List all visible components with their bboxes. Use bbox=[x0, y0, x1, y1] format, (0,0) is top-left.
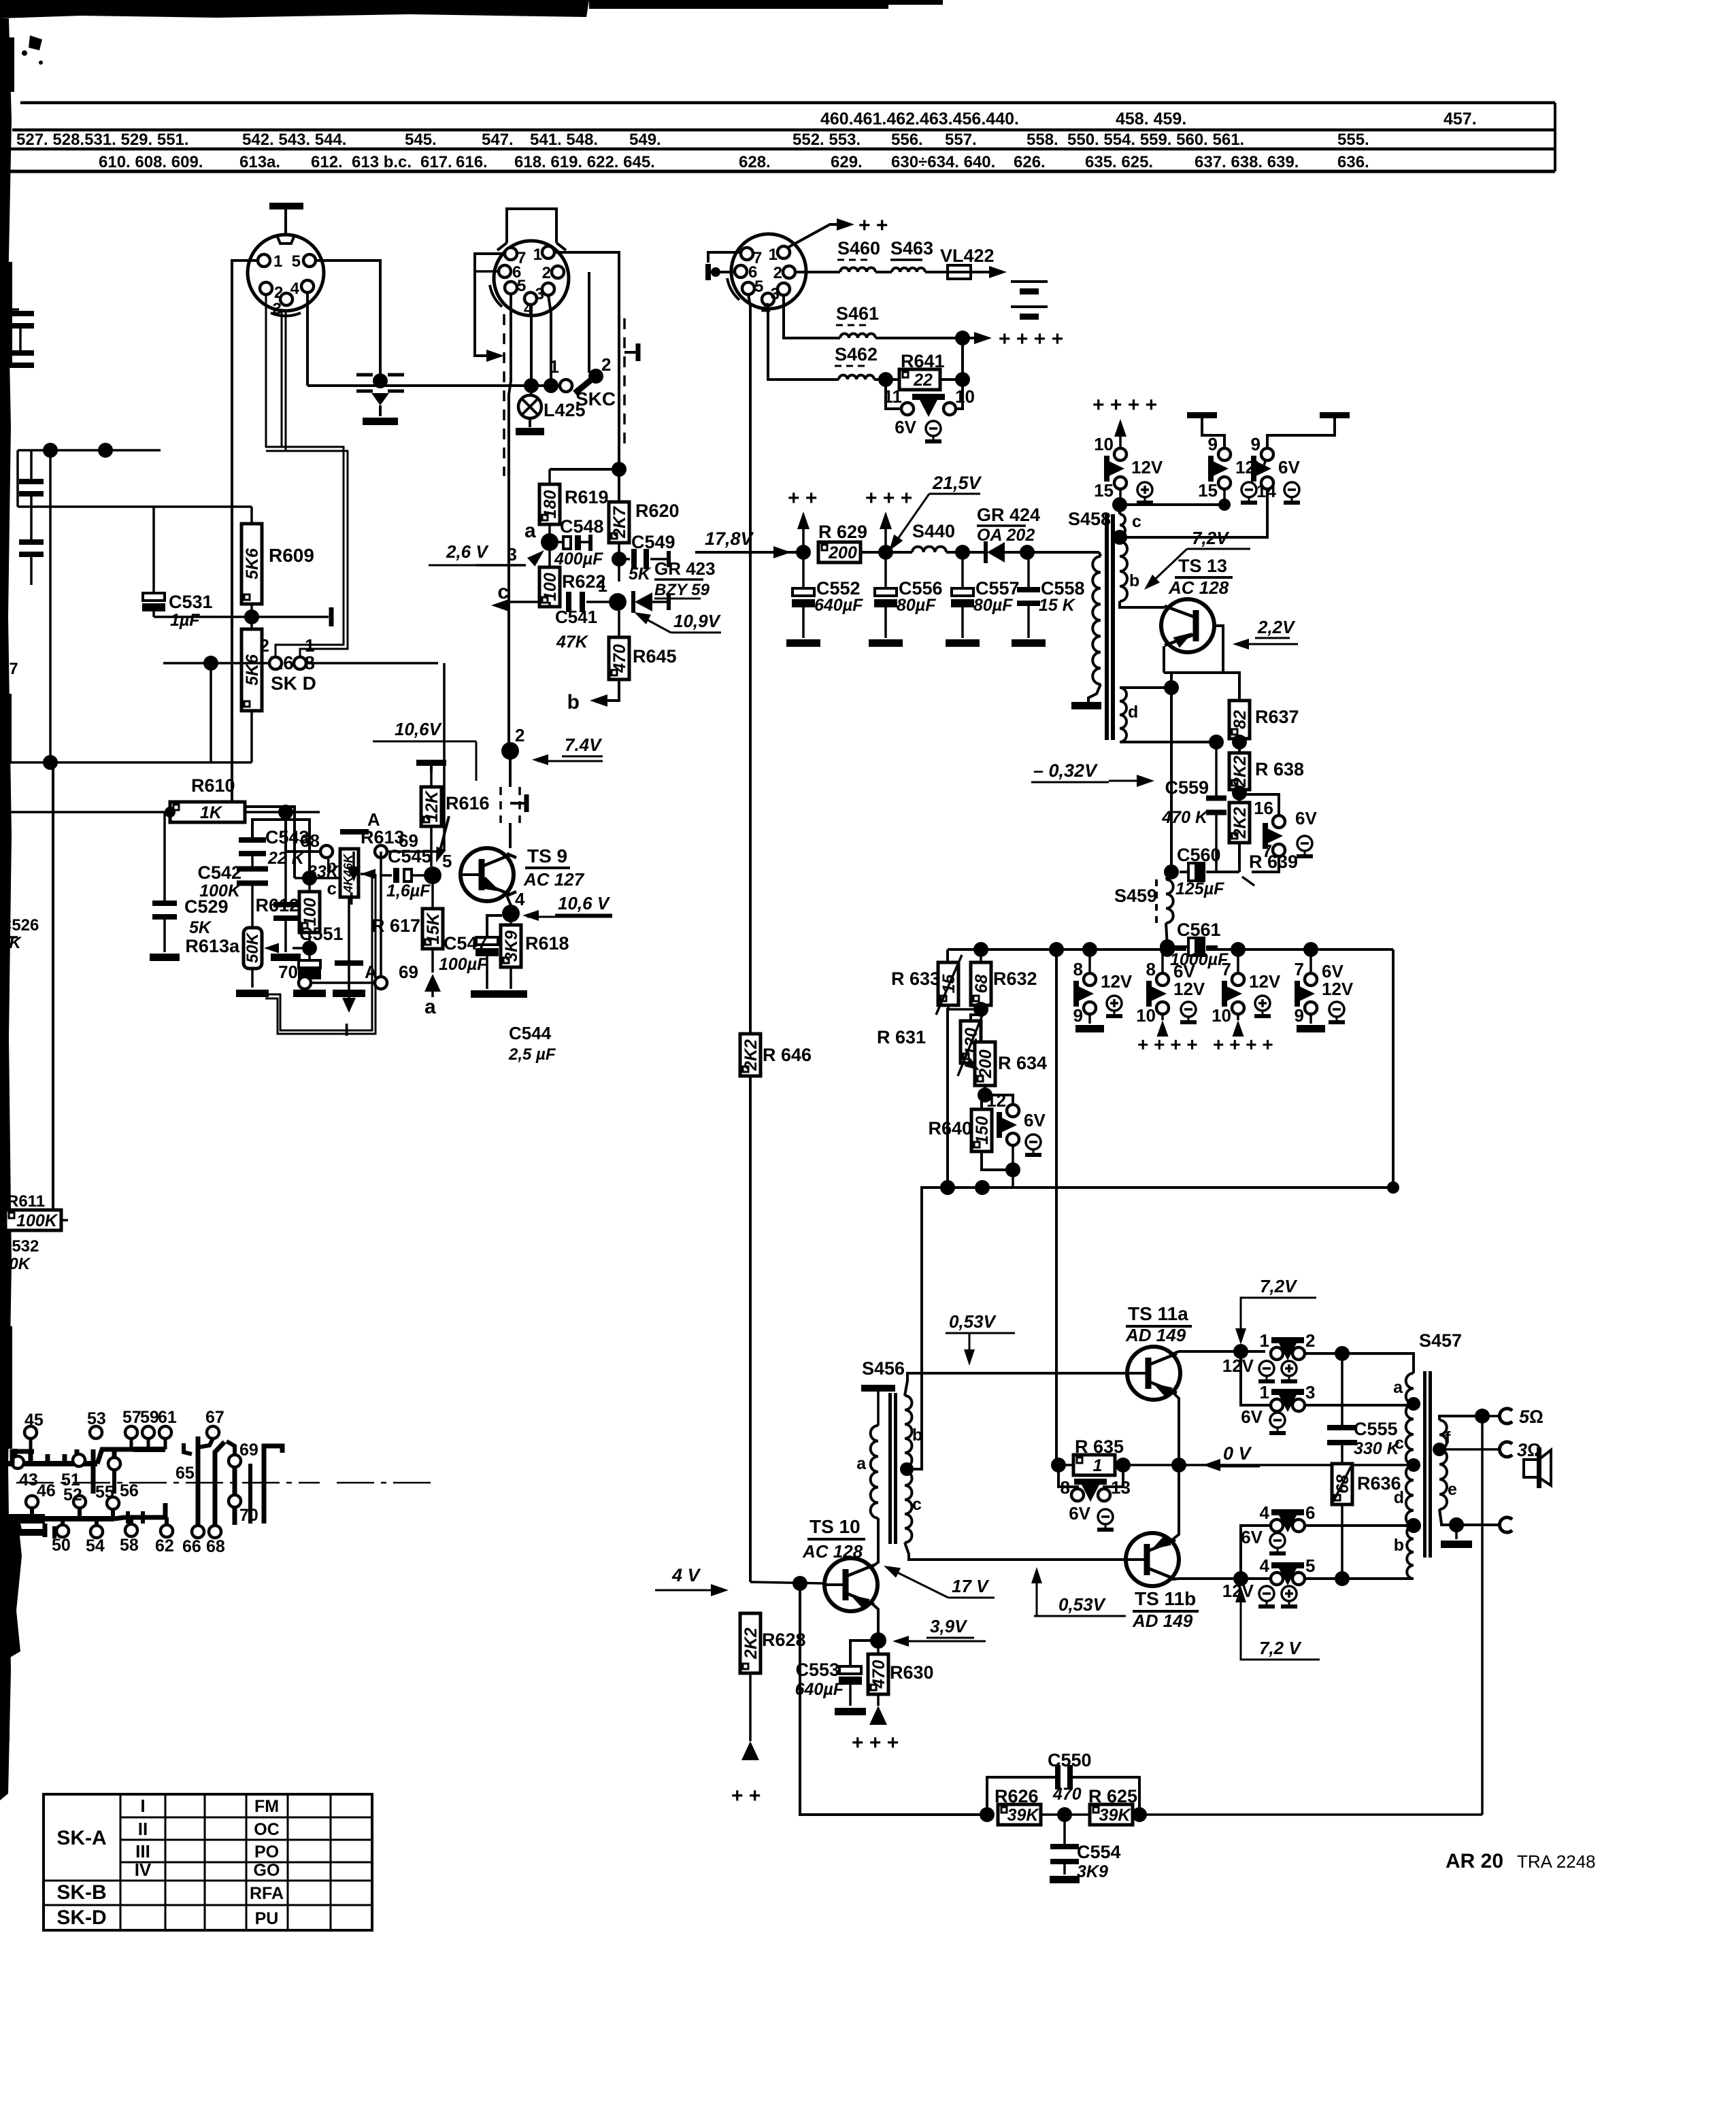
svg-text:13: 13 bbox=[1111, 1477, 1131, 1498]
svg-text:R616: R616 bbox=[446, 793, 490, 813]
svg-text:R632: R632 bbox=[993, 969, 1037, 989]
svg-text:S456: S456 bbox=[862, 1358, 905, 1379]
wire SKA pin2/3 to SKD bbox=[266, 295, 282, 447]
svg-text:A: A bbox=[367, 809, 380, 830]
svg-text:R609: R609 bbox=[269, 545, 314, 566]
wire SKD left bbox=[163, 662, 269, 664]
svg-text:SK D: SK D bbox=[271, 673, 316, 694]
plug contact left of SKE bbox=[705, 264, 711, 280]
button contacts 16-7 (6V) bbox=[1239, 794, 1279, 816]
svg-text:+ + +: + + + bbox=[852, 1732, 899, 1754]
svg-text:C526: C526 bbox=[0, 916, 39, 935]
svg-text:PO: PO bbox=[254, 1843, 279, 1862]
svg-text:15K: 15K bbox=[424, 912, 443, 945]
svg-text:2K2: 2K2 bbox=[741, 1039, 761, 1071]
svg-text:52: 52 bbox=[63, 1485, 82, 1504]
S456 winding a bbox=[871, 1426, 878, 1518]
S458 winding b bbox=[1120, 541, 1127, 601]
SKE pin 4 bbox=[762, 293, 774, 305]
wire SKE pin5 down (long rail) bbox=[748, 295, 750, 1582]
svg-text:635. 625.: 635. 625. bbox=[1085, 153, 1153, 171]
ground C557 bbox=[946, 639, 980, 647]
switch bank branch 68 bbox=[215, 1442, 224, 1526]
resistor R609 bbox=[250, 507, 253, 524]
wire winding b to TS13 base bbox=[1120, 601, 1165, 607]
wire to contacts bbox=[286, 812, 320, 852]
resistor R628 bbox=[740, 1613, 761, 1673]
capacitor C560 row bbox=[1164, 864, 1179, 879]
coil S462 bbox=[839, 375, 874, 380]
svg-text:2K2: 2K2 bbox=[741, 1628, 761, 1660]
capacitor C561 row bbox=[1160, 939, 1175, 954]
svg-text:AR 20: AR 20 bbox=[1446, 1850, 1503, 1872]
node 5 junction bbox=[424, 866, 441, 884]
resistor R626 bbox=[998, 1804, 1041, 1825]
svg-text:+ + + +: + + + + bbox=[999, 328, 1063, 350]
SK table grid bbox=[44, 1794, 372, 1930]
svg-text:9: 9 bbox=[1251, 434, 1261, 454]
wire S461 to ++++ arrow bbox=[875, 337, 978, 339]
common terminal bbox=[1499, 1517, 1512, 1532]
button contacts 4-6 (6V) bbox=[1271, 1519, 1283, 1532]
svg-text:R 617: R 617 bbox=[371, 915, 420, 936]
svg-text:5: 5 bbox=[442, 851, 452, 871]
svg-text:39K: 39K bbox=[1099, 1806, 1132, 1825]
svg-text:C541: C541 bbox=[555, 607, 597, 627]
TS10 base wire bbox=[750, 1582, 824, 1583]
svg-text:3: 3 bbox=[273, 300, 282, 318]
svg-text:3: 3 bbox=[507, 544, 517, 565]
5 ohm terminal bbox=[1499, 1409, 1512, 1424]
svg-text:640µF: 640µF bbox=[795, 1680, 844, 1699]
resistor R639 bbox=[1229, 803, 1250, 843]
switch bank bottom comb bbox=[20, 1516, 114, 1521]
svg-text:+ + +: + + + bbox=[865, 487, 912, 509]
TS11a collector wire bbox=[1173, 1351, 1265, 1353]
resistor R625 bbox=[1090, 1804, 1133, 1825]
contact 55 bbox=[108, 1458, 120, 1470]
junction R609-R608 bbox=[244, 609, 259, 624]
svg-text:TS 13: TS 13 bbox=[1178, 556, 1227, 576]
svg-text:70: 70 bbox=[278, 962, 298, 982]
svg-text:558.: 558. bbox=[1026, 131, 1058, 149]
svg-text:6V: 6V bbox=[1024, 1110, 1046, 1130]
SKB pin 1 bbox=[542, 246, 554, 258]
SKA pin 3 bbox=[280, 293, 293, 305]
SKA pin 1 bbox=[258, 254, 270, 267]
svg-text:2: 2 bbox=[601, 354, 611, 375]
svg-text:I: I bbox=[140, 1796, 145, 1816]
17,8V feed wire with arrow bbox=[695, 551, 799, 554]
contact 43 bbox=[12, 1456, 24, 1468]
speaker feedback rail bbox=[1481, 1416, 1484, 1815]
svg-text:2: 2 bbox=[1305, 1330, 1315, 1351]
resistor R645 bbox=[618, 611, 620, 637]
svg-text:d: d bbox=[1128, 703, 1138, 722]
svg-text:6V: 6V bbox=[1241, 1407, 1263, 1427]
wire R612 chain bbox=[308, 878, 311, 892]
svg-text:1: 1 bbox=[1260, 1330, 1269, 1351]
svg-text:10,9V: 10,9V bbox=[673, 611, 722, 631]
0V rail bbox=[1058, 1464, 1179, 1466]
svg-text:68: 68 bbox=[300, 830, 320, 851]
svg-text:60K: 60K bbox=[0, 1255, 31, 1273]
svg-text:7.4V: 7.4V bbox=[565, 735, 603, 755]
left partial caps bbox=[30, 450, 33, 482]
svg-text:2: 2 bbox=[515, 725, 524, 745]
svg-text:R626: R626 bbox=[995, 1786, 1039, 1806]
svg-text:C561: C561 bbox=[1177, 920, 1221, 940]
svg-text:C549: C549 bbox=[631, 532, 675, 552]
svg-text:L425: L425 bbox=[544, 400, 586, 420]
wire button3 to S457 a/c tap bbox=[1305, 1404, 1414, 1407]
node 1 junction bbox=[609, 593, 627, 611]
svg-text:50K: 50K bbox=[244, 932, 262, 963]
contact 68 bank bbox=[209, 1526, 221, 1538]
contact A lower bbox=[311, 981, 375, 984]
contact 53 bbox=[90, 1426, 102, 1438]
svg-text:10,6V: 10,6V bbox=[395, 719, 443, 739]
wire SKA pin1 to bias network bbox=[232, 260, 295, 878]
svg-text:69: 69 bbox=[399, 962, 418, 982]
feedback double wire bbox=[295, 874, 372, 1030]
svg-text:C544: C544 bbox=[509, 1023, 552, 1043]
svg-text:c: c bbox=[1395, 1434, 1404, 1453]
button contacts 1-2 (12V) bbox=[1271, 1347, 1283, 1360]
svg-text:7: 7 bbox=[1222, 959, 1231, 979]
bus right vertical bbox=[1392, 949, 1395, 1188]
wire R620 top junction bbox=[550, 468, 619, 471]
SKC contact 1 bbox=[560, 380, 572, 392]
wire node5 to R616 bbox=[430, 826, 433, 866]
svg-text:640µF: 640µF bbox=[814, 596, 863, 615]
svg-text:SK-A: SK-A bbox=[56, 1827, 106, 1849]
svg-text:5: 5 bbox=[1305, 1555, 1315, 1576]
contact 67 bbox=[207, 1426, 219, 1438]
S457 winding b bbox=[1407, 1526, 1414, 1579]
svg-text:3,9V: 3,9V bbox=[930, 1616, 968, 1636]
coil S463 bbox=[892, 268, 925, 272]
svg-text:d: d bbox=[1394, 1488, 1404, 1507]
button contacts 1-3 (6V) bbox=[1271, 1399, 1283, 1411]
svg-text:68: 68 bbox=[972, 975, 991, 994]
bus left vertical bbox=[946, 949, 949, 962]
R613 ground bbox=[348, 897, 350, 988]
svg-text:5: 5 bbox=[292, 252, 301, 271]
contact 46 bbox=[26, 1496, 38, 1508]
capacitor C529 bbox=[163, 812, 166, 901]
contact 70 bank bbox=[229, 1495, 241, 1507]
svg-text:7,2V: 7,2V bbox=[1192, 528, 1230, 548]
svg-text:1: 1 bbox=[273, 252, 282, 271]
wire SKB pin3 down bbox=[548, 295, 551, 386]
svg-text:C548: C548 bbox=[560, 516, 604, 537]
wire winding f top to 5ohm bbox=[1439, 1416, 1482, 1420]
wire SKA pin4 down bbox=[306, 292, 309, 386]
resistor R610 bbox=[0, 811, 170, 813]
left partial wire top bbox=[18, 449, 161, 452]
svg-text:10: 10 bbox=[1136, 1005, 1156, 1026]
svg-text:TS 11a: TS 11a bbox=[1128, 1303, 1188, 1324]
svg-text:GR 424: GR 424 bbox=[977, 505, 1040, 525]
vertical rail TS13 collector bbox=[1170, 673, 1173, 872]
switch bank branch 66 bbox=[196, 1436, 201, 1525]
node 4 junction bbox=[502, 905, 520, 922]
resistor R637 bbox=[1229, 701, 1250, 739]
wire c/d tap to 0V rail bbox=[1413, 1464, 1414, 1466]
svg-text:C553: C553 bbox=[795, 1660, 839, 1680]
svg-text:10: 10 bbox=[955, 386, 975, 407]
svg-text:R641: R641 bbox=[901, 351, 945, 371]
svg-text:330 K: 330 K bbox=[1354, 1439, 1401, 1458]
SKE pin 7 bbox=[741, 248, 753, 260]
svg-text:629.: 629. bbox=[831, 153, 863, 171]
transistor TS11b bbox=[1126, 1533, 1179, 1586]
svg-text:S457: S457 bbox=[1419, 1330, 1462, 1351]
speaker bbox=[1524, 1460, 1539, 1477]
resistor R634 bbox=[975, 1042, 995, 1086]
ground below chassis cap bbox=[363, 418, 398, 425]
svg-text:12V: 12V bbox=[1249, 971, 1281, 992]
capacitor C543 bbox=[239, 837, 266, 843]
svg-text:7,2V: 7,2V bbox=[1260, 1276, 1298, 1296]
resistor R620 bbox=[609, 502, 629, 543]
chassis T above R616 bbox=[416, 760, 446, 766]
svg-text:R618: R618 bbox=[525, 933, 569, 954]
svg-text:2,6 V: 2,6 V bbox=[446, 541, 489, 562]
svg-text:C532: C532 bbox=[0, 1237, 39, 1256]
ground R618 bbox=[510, 967, 512, 989]
svg-text:6: 6 bbox=[1305, 1502, 1315, 1523]
wire winding e bottom bbox=[1439, 1509, 1501, 1525]
svg-text:557.: 557. bbox=[945, 131, 977, 149]
svg-text:RFA: RFA bbox=[250, 1884, 284, 1903]
R613 wiper arrow bbox=[361, 869, 375, 879]
svg-text:200: 200 bbox=[976, 1049, 995, 1079]
svg-text:+ + + +: + + + + bbox=[1137, 1034, 1198, 1055]
svg-text:1: 1 bbox=[769, 246, 778, 264]
wire S460-S463 bbox=[875, 271, 892, 273]
mech dashed link right with tick bbox=[623, 318, 626, 449]
wire SKC contact2 up to DIN2 pin2 bbox=[588, 272, 590, 373]
TS11b emitter wire bbox=[1172, 1465, 1179, 1540]
wire diode to transformer bbox=[1027, 551, 1099, 554]
svg-text:SK-D: SK-D bbox=[56, 1906, 106, 1929]
svg-text:6V: 6V bbox=[1295, 808, 1317, 828]
svg-text:5K: 5K bbox=[629, 565, 652, 584]
SKA pin 2 bbox=[260, 282, 272, 295]
svg-text:R 631: R 631 bbox=[877, 1027, 926, 1047]
resistor R641 bbox=[899, 369, 940, 390]
svg-text:c: c bbox=[1132, 512, 1141, 531]
S458 winding c bbox=[1120, 514, 1125, 536]
capacitor C557 bbox=[961, 552, 964, 588]
svg-text:618. 619. 622. 645.: 618. 619. 622. 645. bbox=[514, 153, 655, 171]
bottom rail left bbox=[800, 1583, 981, 1815]
S457 winding d bbox=[1406, 1465, 1414, 1526]
svg-text:12V: 12V bbox=[1222, 1356, 1254, 1376]
svg-text:AC 128: AC 128 bbox=[802, 1541, 863, 1562]
svg-text:550. 554. 559. 560. 561.: 550. 554. 559. 560. 561. bbox=[1067, 131, 1244, 149]
connector SKE (7-pin DIN) body bbox=[731, 234, 806, 309]
svg-text:69: 69 bbox=[399, 830, 418, 851]
capacitor C552 bbox=[802, 552, 805, 588]
S458 winding d bbox=[1120, 688, 1126, 742]
svg-text:– 0,32V: – 0,32V bbox=[1033, 760, 1098, 781]
S456 winding b bbox=[905, 1396, 912, 1467]
svg-text:C560: C560 bbox=[1177, 845, 1221, 865]
S457 winding a bbox=[1406, 1373, 1414, 1404]
wire R629 to S440 bbox=[861, 551, 912, 554]
wire SKE pin4 to S462 bbox=[768, 305, 839, 380]
battery cells bbox=[1011, 280, 1048, 283]
svg-text:15 K: 15 K bbox=[1039, 596, 1076, 615]
wire winding e bottom bbox=[1439, 1509, 1501, 1525]
capacitor C549 bbox=[619, 558, 630, 560]
wire fuse to arrow bbox=[973, 271, 995, 273]
svg-text:VL422: VL422 bbox=[940, 246, 995, 266]
wire winding c bottom to TS11b base bbox=[905, 1543, 1126, 1560]
button 8-9 (12V+) bbox=[1088, 949, 1091, 973]
svg-text:R610: R610 bbox=[191, 775, 235, 796]
resistor R635 bbox=[1073, 1455, 1115, 1475]
node 2 junction bbox=[501, 742, 519, 760]
svg-text:I: I bbox=[344, 1020, 349, 1040]
svg-text:80µF: 80µF bbox=[973, 596, 1013, 615]
svg-text:616.: 616. bbox=[456, 153, 488, 171]
wire S440 to diode bbox=[946, 551, 986, 554]
svg-text:626.: 626. bbox=[1014, 153, 1046, 171]
svg-text:12V: 12V bbox=[1131, 457, 1163, 477]
svg-text:C547: C547 bbox=[444, 933, 488, 954]
junction R638-R639 bbox=[1232, 786, 1247, 801]
contact 45 bbox=[24, 1426, 37, 1438]
ground above SKA bbox=[284, 207, 287, 235]
svg-text:0,53V: 0,53V bbox=[949, 1311, 997, 1332]
svg-text:2K2: 2K2 bbox=[1231, 807, 1250, 839]
S458 winding a bbox=[1099, 552, 1101, 556]
scan artifact top black bar bbox=[0, 0, 589, 18]
svg-text:0,53V: 0,53V bbox=[1058, 1594, 1107, 1615]
svg-text:R620: R620 bbox=[635, 501, 680, 521]
contact 68 bbox=[320, 845, 333, 858]
svg-text:630÷634. 640.: 630÷634. 640. bbox=[891, 153, 995, 171]
switch bank top comb bbox=[5, 1461, 97, 1466]
contact 70 bbox=[299, 977, 311, 989]
svg-text:2,5 µF: 2,5 µF bbox=[508, 1045, 556, 1064]
svg-text:c: c bbox=[912, 1495, 922, 1514]
svg-text:150: 150 bbox=[973, 1116, 992, 1145]
wire button6 to S457 c/d tap bbox=[1305, 1524, 1414, 1527]
svg-text:8: 8 bbox=[1073, 959, 1083, 979]
svg-text:TS 11b: TS 11b bbox=[1135, 1588, 1196, 1609]
svg-text:2,2V: 2,2V bbox=[1257, 617, 1296, 637]
svg-text:3K9: 3K9 bbox=[1077, 1862, 1108, 1881]
contacts 57 59 61 bbox=[125, 1426, 137, 1438]
svg-text:100K: 100K bbox=[16, 1211, 59, 1230]
rail to TS9 collector bbox=[509, 759, 512, 787]
a feed arrow bbox=[431, 949, 434, 973]
TS10 collector wire bbox=[871, 1518, 878, 1568]
ground C554 bbox=[1050, 1876, 1080, 1883]
wire R626-R625 bbox=[1041, 1813, 1090, 1816]
svg-text:5: 5 bbox=[517, 277, 526, 295]
svg-text:R 633: R 633 bbox=[891, 969, 940, 989]
svg-text:1: 1 bbox=[305, 635, 314, 656]
svg-text:0 V: 0 V bbox=[1223, 1443, 1252, 1464]
contact 54 bbox=[90, 1526, 103, 1538]
svg-text:S458: S458 bbox=[1068, 509, 1111, 529]
resistor R636 (VDR) bbox=[1341, 1441, 1343, 1464]
3 ohm terminal bbox=[1499, 1442, 1512, 1457]
svg-text:11: 11 bbox=[884, 386, 903, 407]
svg-text:f: f bbox=[1445, 1428, 1451, 1447]
resistor R618 bbox=[510, 922, 512, 925]
TS11b collector wire bbox=[1172, 1579, 1271, 1579]
contact 56 bbox=[107, 1497, 119, 1509]
svg-text:2K2: 2K2 bbox=[1231, 756, 1250, 788]
transistor TS13 bbox=[1161, 599, 1214, 652]
svg-text:612.: 612. bbox=[311, 153, 343, 171]
svg-text:C550: C550 bbox=[1048, 1750, 1092, 1770]
resistor R622 bbox=[548, 550, 551, 567]
svg-text:2K7: 2K7 bbox=[610, 506, 629, 539]
svg-text:80µF: 80µF bbox=[897, 596, 936, 615]
SKA pin 5 bbox=[303, 254, 316, 267]
svg-text:470 K: 470 K bbox=[1161, 808, 1209, 827]
wire winding b top to TS11a base bbox=[905, 1373, 1127, 1396]
diode GR423 bbox=[635, 592, 652, 611]
left edge partial caps upper bbox=[7, 311, 34, 316]
svg-text:R613a: R613a bbox=[185, 936, 240, 956]
capacitor C548 bbox=[558, 541, 563, 543]
wire R641 right bbox=[940, 378, 963, 381]
isolated contact line bbox=[248, 1464, 252, 1524]
svg-text:10,6 V: 10,6 V bbox=[558, 893, 611, 913]
svg-text:50: 50 bbox=[52, 1536, 71, 1555]
button 7-10 (12V+) bbox=[1237, 949, 1239, 973]
resistor R638 bbox=[1229, 753, 1250, 790]
chassis T above winding a bbox=[877, 1390, 880, 1426]
svg-text:4: 4 bbox=[524, 300, 533, 318]
svg-text:R640: R640 bbox=[928, 1118, 972, 1139]
svg-text:610. 608. 609.: 610. 608. 609. bbox=[99, 153, 203, 171]
wire x74 down bbox=[49, 450, 52, 762]
capacitor C554 bbox=[1063, 1815, 1066, 1845]
svg-text:R 646: R 646 bbox=[763, 1045, 812, 1065]
svg-text:FM: FM bbox=[254, 1797, 279, 1816]
right bracket bbox=[264, 1446, 282, 1524]
svg-text:10: 10 bbox=[1094, 434, 1114, 454]
+++ feed below R630 bbox=[877, 1694, 880, 1706]
svg-text:C542: C542 bbox=[197, 862, 241, 883]
wire SKE pin3 to S461 bbox=[784, 295, 840, 338]
switch SKD bbox=[269, 657, 282, 669]
transistor TS9 bbox=[461, 848, 514, 901]
bus wire (C561 row) bbox=[948, 948, 1186, 951]
svg-text:OC: OC bbox=[254, 1820, 280, 1839]
ground C552 bbox=[786, 639, 820, 647]
SKB pin 4 bbox=[524, 292, 537, 305]
transistor TS10 bbox=[824, 1558, 878, 1611]
svg-text:GO: GO bbox=[254, 1861, 280, 1880]
svg-text:+ + + +: + + + + bbox=[1092, 394, 1157, 416]
svg-text:527. 528.531. 529. 551.: 527. 528.531. 529. 551. bbox=[16, 131, 189, 149]
contact 58 bbox=[125, 1524, 137, 1536]
svg-text:AD 149: AD 149 bbox=[1132, 1611, 1193, 1631]
svg-text:3: 3 bbox=[535, 285, 544, 303]
capacitor C556 bbox=[884, 552, 887, 588]
